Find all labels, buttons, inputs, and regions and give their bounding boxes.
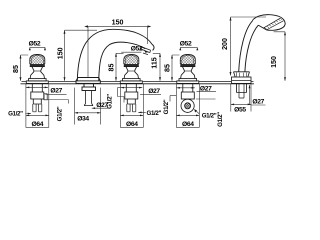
svg-text:85: 85 (108, 64, 116, 72)
svg-text:85: 85 (164, 64, 172, 72)
svg-text:Ø52: Ø52 (131, 45, 143, 52)
svg-text:Ø27: Ø27 (200, 86, 212, 93)
svg-text:G1/2": G1/2" (57, 106, 64, 121)
svg-text:Ø34: Ø34 (77, 116, 89, 123)
svg-text:G1/2": G1/2" (202, 113, 217, 120)
svg-text:Ø27: Ø27 (50, 88, 62, 95)
svg-text:G1/2": G1/2" (163, 99, 170, 114)
svg-text:Ø64: Ø64 (126, 121, 138, 128)
svg-text:Ø27: Ø27 (252, 99, 264, 106)
svg-text:85: 85 (12, 65, 20, 73)
svg-text:Ø52: Ø52 (29, 41, 41, 48)
svg-text:150: 150 (56, 47, 64, 59)
svg-text:G1/2": G1/2" (146, 110, 161, 117)
svg-text:Ø64: Ø64 (32, 121, 44, 128)
svg-text:G1/2": G1/2" (107, 94, 114, 109)
svg-text:150: 150 (112, 19, 124, 27)
svg-text:115: 115 (150, 57, 158, 68)
svg-text:Ø64: Ø64 (182, 121, 194, 128)
svg-text:Ø52: Ø52 (180, 41, 192, 48)
svg-text:G1/2": G1/2" (8, 111, 23, 118)
svg-text:150: 150 (270, 56, 278, 68)
svg-text:G1/2": G1/2" (217, 112, 224, 127)
svg-text:Ø27: Ø27 (148, 88, 160, 95)
svg-text:200: 200 (221, 38, 229, 50)
svg-text:Ø55: Ø55 (234, 106, 246, 113)
